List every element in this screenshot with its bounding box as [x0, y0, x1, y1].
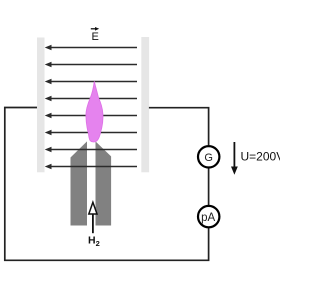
- wire from left plate to left side: [5, 108, 209, 261]
- flame: [86, 81, 103, 142]
- field arrow 1: [45, 45, 137, 51]
- wire between G and pA: [208, 169, 210, 206]
- svg-text:G: G: [204, 152, 213, 164]
- left capacitor plate: [37, 38, 45, 173]
- picoammeter pA: [198, 206, 219, 227]
- svg-text:U=200V: U=200V: [241, 150, 281, 164]
- right capacitor plate: [141, 37, 149, 172]
- galvanometer G: [198, 146, 219, 167]
- field arrow 6: [45, 130, 137, 136]
- field arrow 4: [45, 96, 137, 102]
- field arrow 7: [45, 147, 137, 153]
- wire from right plate to G meter: [149, 108, 209, 145]
- burner tube left half: [71, 141, 88, 225]
- field arrow 3: [45, 79, 137, 85]
- field arrow 2: [45, 62, 137, 68]
- field arrow 8: [45, 164, 137, 170]
- field arrow 5: [45, 113, 137, 119]
- burner tube right half: [96, 141, 112, 225]
- H2 gas arrow: [89, 202, 97, 233]
- voltage direction arrow: [231, 142, 238, 175]
- svg-text:pA: pA: [201, 212, 215, 224]
- svg-text:E: E: [92, 31, 99, 43]
- E field label: [91, 27, 99, 43]
